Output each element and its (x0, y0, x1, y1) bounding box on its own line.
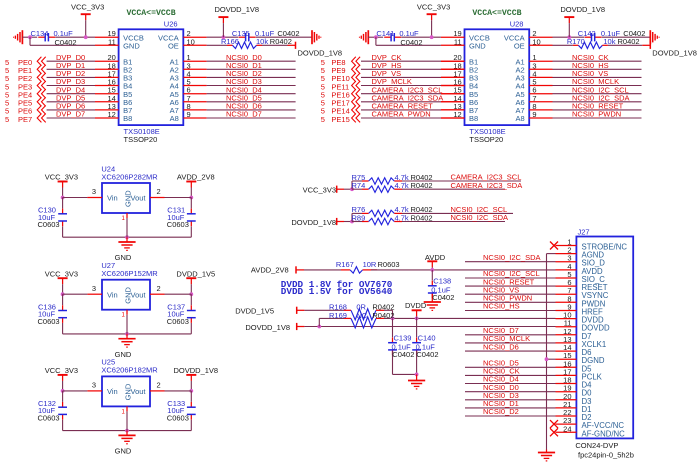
svg-text:C0402: C0402 (432, 293, 454, 302)
svg-text:VCC_3V3: VCC_3V3 (45, 366, 78, 375)
svg-text:Vout: Vout (130, 194, 146, 203)
svg-text:B8: B8 (123, 114, 132, 123)
svg-text:XC6206P152MR: XC6206P152MR (101, 269, 158, 278)
svg-text:R74: R74 (352, 181, 366, 190)
svg-text:PE7: PE7 (18, 115, 32, 124)
svg-text:OE: OE (514, 42, 525, 51)
svg-text:GND: GND (115, 253, 132, 262)
svg-text:3: 3 (92, 284, 96, 293)
svg-text:C139: C139 (394, 333, 412, 342)
svg-text:C0402: C0402 (55, 38, 77, 47)
svg-text:C0402: C0402 (392, 350, 414, 359)
svg-text:NCSI0_I2C_SDA: NCSI0_I2C_SDA (451, 213, 509, 222)
svg-text:C140: C140 (418, 333, 436, 342)
svg-text:R0603: R0603 (378, 260, 400, 269)
svg-text:DVDD_1V5: DVDD_1V5 (235, 307, 274, 316)
svg-text:B8: B8 (469, 114, 478, 123)
svg-text:3: 3 (92, 381, 96, 390)
svg-text:J27: J27 (578, 227, 590, 236)
svg-text:5: 5 (321, 115, 325, 124)
svg-text:NC: NC (356, 311, 367, 320)
svg-text:DVDD 1.5V for OV5640: DVDD 1.5V for OV5640 (281, 286, 393, 297)
svg-text:R0402: R0402 (411, 213, 433, 222)
svg-text:DVDD: DVDD (405, 301, 427, 310)
svg-text:VCC_3V3: VCC_3V3 (303, 186, 336, 195)
svg-text:10k: 10k (603, 37, 615, 46)
svg-text:VCCA<=VCCB: VCCA<=VCCB (127, 9, 176, 18)
svg-text:C0603: C0603 (167, 414, 189, 423)
svg-text:TSSOP20: TSSOP20 (124, 135, 158, 144)
svg-text:0.1uF: 0.1uF (399, 29, 419, 38)
svg-text:10k: 10k (256, 37, 268, 46)
svg-text:Vout: Vout (130, 387, 146, 396)
svg-text:2: 2 (157, 284, 161, 293)
svg-text:2: 2 (157, 187, 161, 196)
svg-text:U28: U28 (510, 20, 524, 29)
svg-text:R170: R170 (567, 37, 585, 46)
svg-text:NCSI0_PWDN: NCSI0_PWDN (572, 110, 621, 119)
svg-text:GND: GND (123, 190, 132, 207)
svg-text:Vin: Vin (107, 194, 118, 203)
svg-text:CAMERA_I2C3_SDA: CAMERA_I2C3_SDA (451, 181, 523, 190)
svg-text:NCSI0_D2: NCSI0_D2 (483, 407, 519, 416)
svg-text:C0603: C0603 (38, 317, 60, 326)
svg-text:VCC_3V3: VCC_3V3 (45, 269, 78, 278)
svg-text:DOVDD_1V8: DOVDD_1V8 (245, 323, 290, 332)
svg-text:A8: A8 (170, 114, 179, 123)
svg-text:C0603: C0603 (167, 220, 189, 229)
svg-text:C134: C134 (31, 29, 49, 38)
svg-text:DOVDD_1V8: DOVDD_1V8 (298, 48, 343, 57)
svg-text:C0603: C0603 (38, 220, 60, 229)
svg-text:Vout: Vout (130, 290, 146, 299)
svg-text:GND: GND (115, 350, 132, 359)
svg-text:R0402: R0402 (618, 37, 640, 46)
svg-text:C0402: C0402 (416, 350, 438, 359)
svg-text:4.7k: 4.7k (395, 181, 409, 190)
svg-text:VCCA<=VCCB: VCCA<=VCCB (472, 9, 521, 18)
svg-text:0.1uF: 0.1uF (54, 29, 74, 38)
svg-text:R89: R89 (352, 213, 366, 222)
svg-text:NCSI0_D7: NCSI0_D7 (226, 110, 262, 119)
svg-text:fpc24pin-0_5h2b: fpc24pin-0_5h2b (578, 451, 634, 460)
svg-text:NCSI0_D6: NCSI0_D6 (483, 342, 519, 351)
svg-text:DVDD_1V5: DVDD_1V5 (176, 269, 215, 278)
svg-text:CON24-DVP: CON24-DVP (575, 441, 618, 450)
svg-text:CAMERA_PWDN: CAMERA_PWDN (372, 110, 431, 119)
svg-text:VCC_3V3: VCC_3V3 (71, 2, 104, 11)
svg-text:10R: 10R (363, 260, 377, 269)
svg-text:AVDD_2V8: AVDD_2V8 (251, 266, 289, 275)
svg-text:AVDD_2V8: AVDD_2V8 (177, 173, 215, 182)
svg-text:DOVDD_1V8: DOVDD_1V8 (173, 366, 218, 375)
svg-text:GND: GND (469, 42, 486, 51)
svg-text:2: 2 (157, 381, 161, 390)
svg-text:R0402: R0402 (270, 37, 292, 46)
svg-text:DOVDD_1V8: DOVDD_1V8 (215, 5, 260, 14)
svg-text:DOVDD_1V8: DOVDD_1V8 (291, 218, 336, 227)
svg-text:4.7k: 4.7k (395, 213, 409, 222)
svg-text:DVP_D7: DVP_D7 (56, 110, 85, 119)
svg-text:OE: OE (168, 42, 179, 51)
svg-text:5: 5 (5, 115, 9, 124)
svg-text:R169: R169 (329, 311, 347, 320)
svg-text:Vin: Vin (107, 290, 118, 299)
svg-text:GND: GND (123, 42, 140, 51)
svg-text:XC6206P282MR: XC6206P282MR (101, 172, 158, 181)
svg-text:TSSOP20: TSSOP20 (469, 135, 503, 144)
svg-text:R167: R167 (336, 260, 354, 269)
svg-text:VCC_3V3: VCC_3V3 (45, 173, 78, 182)
svg-text:NCSI0_I2C_SDA: NCSI0_I2C_SDA (483, 253, 541, 262)
svg-text:C0603: C0603 (38, 414, 60, 423)
svg-text:NCSI0_HS: NCSI0_HS (483, 302, 520, 311)
svg-text:24: 24 (563, 424, 571, 433)
svg-text:DOVDD_1V8: DOVDD_1V8 (560, 5, 605, 14)
svg-text:XC6206P182MR: XC6206P182MR (101, 366, 158, 375)
svg-text:C138: C138 (433, 276, 451, 285)
svg-text:U26: U26 (164, 20, 178, 29)
svg-text:VCC_3V3: VCC_3V3 (417, 2, 450, 11)
svg-text:GND: GND (115, 447, 132, 456)
svg-text:AF-GND/NC: AF-GND/NC (582, 429, 626, 438)
svg-text:Vin: Vin (107, 387, 118, 396)
svg-text:C141: C141 (376, 29, 394, 38)
svg-text:R0402: R0402 (411, 181, 433, 190)
svg-text:R166: R166 (221, 37, 239, 46)
svg-text:C0402: C0402 (400, 38, 422, 47)
svg-text:DOVDD_1V8: DOVDD_1V8 (652, 48, 697, 57)
svg-text:C0603: C0603 (167, 317, 189, 326)
svg-text:A8: A8 (516, 114, 525, 123)
svg-text:GND: GND (123, 383, 132, 400)
svg-text:3: 3 (92, 187, 96, 196)
svg-text:PE15: PE15 (331, 115, 349, 124)
svg-text:R0402: R0402 (372, 311, 394, 320)
svg-text:GND: GND (123, 286, 132, 303)
